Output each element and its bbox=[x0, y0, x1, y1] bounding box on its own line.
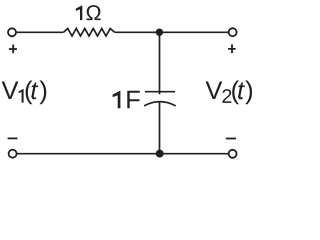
label V2(t): V bbox=[206, 81, 223, 99]
wire bottom bbox=[17, 153, 228, 155]
label V2(t): subscript 2 bbox=[222, 89, 231, 103]
plus sign left bbox=[9, 45, 17, 54]
plus sign right bbox=[228, 44, 236, 53]
label V1(t): close paren bbox=[40, 81, 47, 105]
wire capacitor top lead bbox=[159, 32, 161, 94]
label 1F: digit 1 bbox=[113, 91, 121, 109]
label V1(t): V bbox=[2, 81, 19, 99]
terminal bottom-right bbox=[229, 150, 237, 158]
label V2(t): italic t bbox=[238, 83, 245, 100]
node junction bottom bbox=[156, 150, 164, 158]
resistor R 1-ohm zigzag bbox=[64, 29, 115, 37]
label 1F: F bbox=[127, 91, 139, 109]
label V2(t): close paren bbox=[245, 81, 252, 105]
label V2(t): open paren bbox=[232, 81, 239, 105]
terminal bottom-left bbox=[9, 150, 17, 158]
label 1-ohm: digit 1 bbox=[76, 5, 83, 20]
node junction top bbox=[156, 29, 163, 36]
terminal top-left bbox=[8, 28, 16, 36]
wire top-left lead bbox=[17, 31, 64, 33]
wire capacitor bottom lead bbox=[159, 102, 161, 154]
label V1(t): open paren bbox=[26, 81, 33, 105]
label 1-ohm: omega bbox=[86, 5, 100, 20]
terminal top-right bbox=[229, 28, 237, 36]
capacitor C1 top plate bbox=[145, 91, 175, 93]
capacitor C1 curved plate bbox=[144, 102, 176, 106]
label V1(t): italic t bbox=[31, 83, 38, 100]
label V1(t): subscript 1 bbox=[19, 89, 24, 103]
minus sign left bbox=[8, 137, 18, 139]
wire top-right lead bbox=[115, 31, 228, 33]
minus sign right bbox=[226, 138, 236, 140]
